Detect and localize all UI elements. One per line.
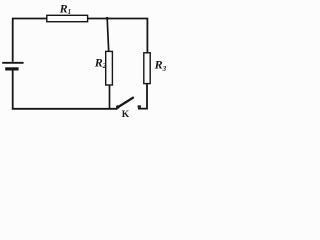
- battery: long plate: [2, 62, 23, 64]
- wire: R2 branch bottom lead: [109, 85, 111, 108]
- resistor R2: [106, 51, 113, 85]
- wire: R3 bottom lead + bottom-right segment: [138, 84, 147, 109]
- resistor R1: [47, 15, 88, 21]
- wire: top-right segment + right vertical top lead: [88, 19, 148, 53]
- wire: battery top lead + top-left segment: [13, 19, 47, 62]
- wire: R2 branch top lead: [107, 19, 109, 52]
- wire: battery bottom lead + bottom-left segment: [13, 70, 118, 109]
- switch K: blade: [118, 97, 134, 107]
- battery: short thick plate: [5, 67, 18, 70]
- svg-text:K: K: [122, 110, 130, 120]
- switch K: pivot contact: [116, 105, 120, 109]
- node: junction of R2 branch on top wire: [106, 17, 109, 20]
- switch K: right contact: [138, 105, 141, 107]
- resistor R3: [144, 53, 150, 84]
